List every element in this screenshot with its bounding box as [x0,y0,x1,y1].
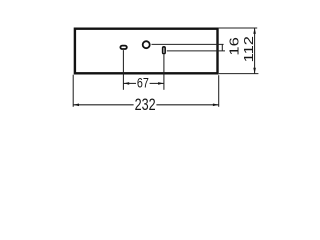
extension line down from right slot center [163,55,165,90]
extension line below left body edge [72,75,74,107]
arrowhead 232 right [213,104,219,107]
svg-text:112: 112 [241,36,256,62]
svg-text:232: 232 [135,97,156,115]
dimension line 232 right segment [156,104,218,106]
svg-text:67: 67 [137,75,149,91]
dimension line 16 [221,44,223,51]
svg-text:16: 16 [227,37,242,55]
extension line below right body edge [218,75,220,107]
arrowhead 112 up [253,28,256,34]
extension line right below body bottom edge [219,73,259,75]
arrowhead 67 left [124,82,130,85]
extension line right from right slot center [167,50,225,52]
dimension line 232 left segment [73,104,133,106]
dimension line 112 [254,28,256,74]
dimension line 67 left segment [123,82,136,84]
extension line right from body top edge [218,27,257,29]
mounting hole (circle) [143,41,150,48]
mounting slot right (vertical obround) [163,47,166,54]
fixture body outline [75,29,218,74]
dimension line 67 right segment [150,82,164,84]
mounting slot left (horizontal obround) [120,46,126,49]
arrowhead 232 left [73,104,79,107]
arrowhead 112 down [253,68,256,74]
extension line right from circle center [152,43,224,45]
extension line down from left slot center [122,50,124,90]
arrowhead 67 right [158,82,164,85]
